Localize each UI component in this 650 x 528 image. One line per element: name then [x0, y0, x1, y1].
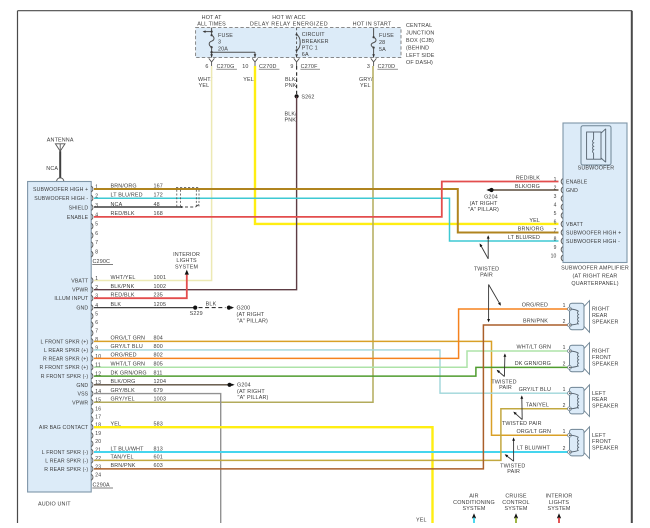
svg-text:3: 3	[554, 194, 557, 200]
audio unit C290A pin 19 bracket	[91, 433, 93, 439]
svg-text:ANTENNA: ANTENNA	[47, 138, 74, 144]
svg-text:PTC 1: PTC 1	[302, 45, 318, 51]
audio unit U1	[28, 182, 92, 493]
svg-text:L REAR SPKR (+): L REAR SPKR (+)	[44, 348, 88, 354]
svg-text:SHIELD: SHIELD	[69, 206, 89, 212]
ground G204 (AT RIGHT A PILLAR) at audio unit	[227, 383, 268, 402]
svg-text:L FRONT SPKR (+): L FRONT SPKR (+)	[40, 339, 88, 345]
label HOT AT ALL TIMES	[197, 15, 226, 27]
svg-text:RIGHT: RIGHT	[592, 307, 610, 313]
svg-text:LIGHTS: LIGHTS	[176, 258, 197, 264]
svg-text:INTERIOR: INTERIOR	[173, 252, 200, 258]
audio unit C290A pin 17 bracket	[91, 416, 93, 422]
svg-text:S262: S262	[301, 94, 314, 100]
svg-text:1001: 1001	[154, 275, 167, 281]
audio unit C290A pin 6 bracket	[91, 322, 93, 328]
svg-text:YEL: YEL	[199, 83, 210, 89]
audio unit C290A pin 10 bracket	[91, 356, 93, 362]
wire TAN/YEL 601 L rear spkr -	[94, 409, 568, 461]
svg-text:24: 24	[95, 473, 101, 479]
svg-text:YEL: YEL	[360, 83, 371, 89]
svg-text:BLK/: BLK/	[285, 77, 298, 83]
label CENTRAL JUNCTION BOX (CJB) (BEHIND LEFT SIDE OF DASH)	[406, 23, 435, 66]
svg-text:SPEAKER: SPEAKER	[592, 404, 619, 410]
svg-text:LEFT: LEFT	[592, 391, 606, 397]
wire GRY/YEL from C270D pin 3 to audio pin VPWR 15	[94, 66, 373, 402]
svg-text:SUBWOOFER HIGH +: SUBWOOFER HIGH +	[33, 187, 88, 193]
connector label C290A	[92, 483, 113, 489]
svg-text:SPEAKER: SPEAKER	[592, 319, 619, 325]
callout INTERIOR LIGHTS SYSTEM (bottom)	[546, 493, 573, 523]
svg-text:2: 2	[563, 361, 566, 367]
arrowhead into connector at x=373.6	[372, 54, 375, 57]
wire label GRY/BLK 679	[111, 388, 163, 394]
wire WHT/LT GRN 805 R front spkr +	[94, 351, 568, 367]
svg-text:BRN/PNK: BRN/PNK	[523, 319, 548, 325]
audio unit C290A pin 3 bracket	[91, 295, 93, 301]
wire CJB branch fuse3 to pin 10	[210, 51, 255, 58]
label RIGHT FRONT SPEAKER	[592, 349, 619, 368]
svg-text:LT BLU/RED: LT BLU/RED	[508, 235, 540, 241]
wire label BRN/ORG 167	[111, 183, 163, 189]
svg-text:SPEAKER: SPEAKER	[592, 446, 619, 452]
svg-text:"A" PILLAR): "A" PILLAR)	[238, 395, 269, 401]
splice S262	[295, 94, 315, 100]
wire label WHT/LT GRN + pin 1 (RF)	[516, 345, 565, 351]
amp pin 8 bracket	[561, 238, 563, 244]
audio unit C290A pin 15 bracket	[91, 399, 93, 405]
svg-text:9: 9	[554, 245, 557, 251]
svg-text:5: 5	[95, 312, 98, 318]
wire label YEL 583	[111, 422, 163, 428]
audio unit C290C pin 2 bracket	[91, 195, 93, 201]
svg-text:3: 3	[218, 39, 221, 45]
ground G200 (AT RIGHT A PILLAR)	[227, 306, 268, 325]
wire YEL from C270D pin 10 to subwoofer amp VBATT	[255, 66, 559, 224]
svg-text:TWISTED PAIR: TWISTED PAIR	[502, 421, 542, 427]
svg-text:6A: 6A	[302, 52, 309, 58]
svg-text:NCA: NCA	[46, 166, 58, 172]
speaker right front	[568, 343, 590, 375]
wire BLK/PNK dashed segment C270F to S262	[296, 66, 298, 94]
audio unit C290A pin 20 bracket	[91, 441, 93, 447]
svg-text:R FRONT SPKR (+): R FRONT SPKR (+)	[39, 365, 88, 371]
amp pin 3 bracket	[561, 196, 563, 202]
svg-text:LEFT SIDE: LEFT SIDE	[406, 53, 435, 59]
wire DK GRN/ORG 811 R front spkr -	[94, 367, 568, 376]
wire label RED/BLK 168	[111, 211, 163, 217]
svg-text:1: 1	[563, 387, 566, 393]
svg-text:WHT/YEL: WHT/YEL	[111, 275, 136, 281]
svg-text:28: 28	[379, 40, 385, 46]
svg-text:(BEHIND: (BEHIND	[406, 45, 429, 51]
callout TWISTED PAIR (LF pair)	[500, 437, 525, 475]
amp pin 6 bracket	[561, 221, 563, 227]
svg-text:(AT RIGHT REAR: (AT RIGHT REAR	[573, 273, 618, 279]
svg-text:3: 3	[95, 203, 98, 209]
splice S229	[190, 306, 203, 318]
wire label BRN/PNK + pin 2 (RR)	[523, 319, 566, 325]
svg-text:INTERIOR: INTERIOR	[546, 493, 573, 499]
svg-text:PAIR: PAIR	[507, 469, 520, 475]
svg-text:TAN/YEL: TAN/YEL	[526, 403, 549, 409]
wire label BRN/PNK 603	[111, 463, 163, 469]
svg-text:SYSTEM: SYSTEM	[547, 506, 570, 512]
svg-text:1002: 1002	[154, 284, 167, 290]
svg-text:VBATT: VBATT	[71, 279, 89, 285]
audio unit C290C pin 6 bracket	[91, 233, 93, 239]
svg-text:SUBWOOFER HIGH +: SUBWOOFER HIGH +	[566, 230, 621, 236]
svg-text:LEFT: LEFT	[592, 433, 606, 439]
wire WHT/YEL vertical from C270G to audio pin 1	[94, 66, 212, 281]
svg-text:8: 8	[95, 250, 98, 256]
shield dashed loop around twisted pair	[176, 187, 200, 206]
svg-text:BREAKER: BREAKER	[302, 39, 329, 45]
label SUBWOOFER AMPLIFIER (AT RIGHT REAR QUARTERPANEL)	[561, 266, 629, 287]
svg-text:6: 6	[554, 219, 557, 225]
audio unit C290A pin 24 bracket	[91, 474, 93, 480]
svg-text:BLK: BLK	[206, 301, 217, 307]
svg-text:DK GRN/ORG: DK GRN/ORG	[515, 361, 551, 367]
svg-text:G204: G204	[484, 195, 498, 201]
svg-text:7: 7	[554, 228, 557, 234]
svg-text:4: 4	[554, 202, 557, 208]
arrowhead into connector at x=255	[254, 54, 257, 57]
fuse F3 20A	[203, 28, 234, 58]
wire label GRY/LT BLU 800	[111, 344, 163, 350]
audio unit C290A pin 8 bracket	[91, 339, 93, 345]
svg-text:ILLUM INPUT: ILLUM INPUT	[54, 296, 89, 302]
svg-text:1003: 1003	[154, 397, 167, 403]
svg-text:PNK: PNK	[285, 83, 297, 89]
wire GRY/BLK 679 VSS down to page bottom	[94, 394, 221, 523]
audio unit C290A pin 18 bracket	[91, 424, 93, 430]
wire label NCA 48	[111, 202, 160, 208]
wire label ORG/LT GRN + pin 1 (LF)	[516, 429, 565, 435]
svg-text:G200: G200	[237, 306, 251, 312]
audio unit C290A pin 23 bracket	[91, 466, 93, 472]
svg-text:16: 16	[95, 406, 101, 412]
svg-text:20A: 20A	[218, 46, 228, 52]
audio unit C290C pin 1 bracket	[91, 186, 93, 192]
audio unit C290A pin 2 bracket	[91, 287, 93, 293]
arrowhead into connector at x=296.6	[295, 54, 298, 57]
wire label TAN/YEL + pin 2 (LR)	[526, 403, 566, 409]
amp pin 5 bracket	[561, 213, 563, 219]
connector pin symbol at x=255	[252, 58, 258, 66]
svg-text:AIR BAG CONTACT: AIR BAG CONTACT	[39, 425, 89, 431]
svg-text:GND: GND	[76, 383, 88, 389]
audio unit C290A pin 5 bracket	[91, 313, 93, 319]
wire label BLK/PNK upper	[285, 77, 298, 89]
antenna	[47, 138, 74, 182]
page border frame	[18, 10, 633, 12]
wire RED/BLK 168 enable to amp pin 1	[94, 182, 559, 217]
svg-text:SPEAKER: SPEAKER	[592, 361, 619, 367]
audio unit C290C pin 5 bracket	[91, 223, 93, 229]
wire label GRY/YEL	[359, 77, 373, 89]
label HOT W/ ACC DELAY RELAY ENERGIZED	[250, 15, 328, 27]
svg-text:HOT W/ ACC: HOT W/ ACC	[272, 15, 305, 21]
svg-text:FRONT: FRONT	[592, 355, 612, 361]
svg-text:GRY/YEL: GRY/YEL	[111, 397, 135, 403]
amp pin 1 bracket	[561, 179, 563, 185]
svg-text:BLK/ORG: BLK/ORG	[515, 184, 540, 190]
svg-text:8: 8	[554, 236, 557, 242]
wire label BLK/ORG 1204	[111, 379, 167, 385]
speaker left rear	[568, 385, 590, 417]
svg-text:ALL TIMES: ALL TIMES	[197, 22, 226, 28]
svg-text:19: 19	[95, 431, 101, 437]
wire BLK/ORG 1204 to ground G204	[94, 384, 228, 386]
subwoofer amplifier U2	[563, 123, 627, 263]
connector label 6 C270G	[205, 64, 237, 70]
svg-text:S229: S229	[190, 311, 203, 317]
svg-text:HOT IN START: HOT IN START	[353, 22, 392, 28]
wire BLK dashed to G200	[199, 307, 226, 309]
svg-text:R REAR SPKR (-): R REAR SPKR (-)	[44, 467, 88, 473]
wire label LT BLU/WHT 813	[111, 446, 163, 452]
svg-text:20: 20	[95, 439, 101, 445]
svg-text:SUBWOOFER HIGH -: SUBWOOFER HIGH -	[34, 196, 88, 202]
svg-text:1: 1	[563, 429, 566, 435]
wire BRN/PNK 603 R rear spkr -	[94, 325, 568, 469]
callout INTERIOR LIGHTS SYSTEM (left)	[173, 252, 200, 275]
svg-text:DELAY RELAY ENERGIZED: DELAY RELAY ENERGIZED	[250, 22, 328, 28]
wire ORG/RED 802 R rear spkr +	[94, 309, 568, 358]
svg-text:SUBWOOFER: SUBWOOFER	[578, 166, 615, 172]
connector label C290C	[92, 259, 113, 265]
svg-text:BLK/: BLK/	[285, 112, 298, 118]
svg-text:PAIR: PAIR	[499, 385, 512, 391]
wire label ORG/RED 802	[111, 353, 163, 359]
wire label LT BLU/RED 172	[111, 193, 163, 199]
svg-text:FUSE: FUSE	[218, 33, 233, 39]
svg-text:G204: G204	[237, 383, 251, 389]
wire label BLK/PNK 1002	[111, 284, 167, 290]
connector label 3 C270D	[367, 64, 398, 70]
audio unit C290C pin 7 bracket	[91, 242, 93, 248]
svg-text:BRN/ORG: BRN/ORG	[518, 226, 544, 232]
svg-text:2: 2	[563, 319, 566, 325]
wire BRN/ORG 167 subwoofer high + to amp pin 7	[94, 189, 559, 233]
label LEFT FRONT SPEAKER	[592, 433, 619, 452]
svg-text:R REAR SPKR (+): R REAR SPKR (+)	[43, 356, 88, 362]
speaker left front	[568, 427, 590, 459]
svg-text:2: 2	[563, 446, 566, 452]
amp pin 10 bracket	[561, 255, 563, 261]
wire label BLK 1205	[111, 302, 167, 308]
wire RED/BLK 235 illum input to interior lights system	[94, 275, 187, 299]
svg-text:SYSTEM: SYSTEM	[462, 506, 485, 512]
amp pin 4 bracket	[561, 204, 563, 210]
wire label RED/BLK 235	[111, 293, 163, 299]
svg-text:AIR: AIR	[469, 493, 478, 499]
circuit breaker PTC 1 6A	[296, 28, 329, 58]
wire label LT BLU/WHT + pin 2 (LF)	[517, 446, 566, 452]
svg-text:YEL: YEL	[529, 218, 540, 224]
svg-text:7: 7	[95, 329, 98, 335]
wire BLK/PNK from S262 to audio pin VPWR	[94, 96, 297, 289]
audio unit C290A pin 22 bracket	[91, 458, 93, 464]
callout CRUISE CONTROL SYSTEM	[502, 493, 529, 523]
connector pin symbol at x=211.6	[209, 58, 215, 66]
audio unit C290A pin 16 bracket	[91, 408, 93, 414]
svg-text:CONTROL: CONTROL	[502, 500, 529, 506]
amp pin 9 bracket	[561, 247, 563, 253]
svg-text:SUBWOOFER AMPLIFIER: SUBWOOFER AMPLIFIER	[561, 266, 629, 272]
svg-text:LIGHTS: LIGHTS	[549, 500, 570, 506]
svg-text:(AT RIGHT: (AT RIGHT	[470, 201, 498, 207]
connector label 10 C270D	[242, 64, 279, 70]
wire LT BLU/WHT 813 L front spkr -	[94, 451, 568, 453]
svg-text:"A" PILLAR): "A" PILLAR)	[237, 319, 268, 325]
svg-text:REAR: REAR	[592, 313, 608, 319]
audio unit C290A pin 13 bracket	[91, 382, 93, 388]
svg-text:ENABLE: ENABLE	[566, 179, 588, 185]
svg-text:15: 15	[95, 398, 101, 404]
svg-text:(AT RIGHT: (AT RIGHT	[237, 312, 265, 318]
svg-text:LT BLU/WHT: LT BLU/WHT	[517, 446, 551, 452]
audio unit C290A pin 1 bracket	[91, 278, 93, 284]
wire label DK GRN/ORG 811	[111, 370, 163, 376]
svg-text:10: 10	[551, 253, 557, 259]
wire label GRY/LT BLU + pin 1 (LR)	[519, 387, 566, 393]
wire label BLK/PNK lower	[285, 112, 298, 124]
svg-text:GRY/: GRY/	[359, 77, 373, 83]
svg-text:RIGHT: RIGHT	[592, 349, 610, 355]
wire label WHT/LT GRN 805	[111, 362, 163, 368]
wire ORG/LT GRN 804 L front spkr +	[94, 341, 568, 435]
wire label TAN/YEL 601	[111, 455, 163, 461]
audio unit C290A pin 11 bracket	[91, 364, 93, 370]
svg-text:5: 5	[95, 222, 98, 228]
svg-text:AUDIO UNIT: AUDIO UNIT	[38, 501, 71, 507]
ground G204 at amp GND pin 2	[468, 188, 558, 213]
wire GRY/LT BLU 800 L rear spkr +	[94, 350, 568, 393]
label LEFT REAR SPEAKER	[592, 391, 619, 410]
wire label DK GRN/ORG + pin 2 (RF)	[515, 361, 566, 367]
svg-text:YEL: YEL	[243, 77, 254, 83]
svg-text:CENTRAL: CENTRAL	[406, 23, 432, 29]
audio unit C290A pin 9 bracket	[91, 347, 93, 353]
svg-text:CIRCUIT: CIRCUIT	[302, 32, 325, 38]
arrowhead into connector at x=211.6	[210, 54, 213, 57]
svg-text:BOX (CJB): BOX (CJB)	[406, 38, 434, 44]
svg-text:1: 1	[563, 345, 566, 351]
svg-text:3: 3	[367, 64, 370, 70]
svg-text:VSS: VSS	[77, 392, 88, 398]
svg-text:PNK: PNK	[285, 118, 297, 124]
connector pin symbol at x=373.6	[371, 58, 377, 66]
svg-text:VBATT: VBATT	[566, 222, 584, 228]
svg-text:FRONT: FRONT	[592, 439, 612, 445]
svg-text:1: 1	[554, 177, 557, 183]
svg-text:GND: GND	[566, 188, 578, 194]
svg-text:WHT/: WHT/	[198, 77, 213, 83]
svg-text:5: 5	[554, 211, 557, 217]
connector label 9 C270F	[290, 64, 320, 70]
label RIGHT REAR SPEAKER	[592, 307, 619, 326]
svg-text:6: 6	[95, 231, 98, 237]
svg-text:ORG/LT GRN: ORG/LT GRN	[516, 429, 551, 435]
speaker right rear	[568, 301, 590, 333]
svg-text:WHT/LT GRN: WHT/LT GRN	[516, 345, 551, 351]
svg-text:ORG/RED: ORG/RED	[522, 303, 548, 309]
svg-text:R FRONT SPKR (-): R FRONT SPKR (-)	[41, 374, 89, 380]
subwoofer speaker icon	[581, 126, 611, 165]
svg-text:VPWR: VPWR	[72, 400, 88, 406]
svg-text:HOT AT: HOT AT	[202, 15, 222, 21]
callout TWISTED PAIR (RF pair)	[491, 353, 516, 391]
svg-text:FUSE: FUSE	[379, 33, 394, 39]
svg-text:GRY/LT BLU: GRY/LT BLU	[519, 387, 551, 393]
callout TWISTED PAIR (amp + RR pairs)	[474, 235, 502, 322]
wire label GRY/YEL 1003	[111, 397, 167, 403]
svg-text:VPWR: VPWR	[72, 288, 88, 294]
audio unit C290C pin 4 bracket	[91, 214, 93, 220]
central junction box CJB	[196, 28, 401, 58]
svg-text:SUBWOOFER HIGH -: SUBWOOFER HIGH -	[566, 239, 620, 245]
svg-text:7: 7	[95, 240, 98, 246]
svg-text:YEL: YEL	[416, 518, 427, 524]
svg-text:REAR: REAR	[592, 397, 608, 403]
svg-text:JUNCTION: JUNCTION	[406, 31, 434, 37]
svg-text:"A" PILLAR): "A" PILLAR)	[468, 207, 499, 213]
wire label ORG/RED + pin 1 (RR)	[522, 303, 566, 309]
audio unit C290A pin 14 bracket	[91, 391, 93, 397]
wire label ORG/LT GRN 804	[111, 336, 163, 342]
audio unit C290C pin 8 bracket	[91, 251, 93, 257]
audio unit C290A pin 4 bracket	[91, 305, 93, 311]
wire BLK 1205 to splice S229	[94, 307, 195, 309]
svg-text:BLK/PNK: BLK/PNK	[111, 284, 135, 290]
svg-text:QUARTERPANEL): QUARTERPANEL)	[571, 281, 618, 287]
svg-text:L FRONT SPKR (-): L FRONT SPKR (-)	[42, 450, 89, 456]
svg-text:2: 2	[95, 285, 98, 291]
svg-text:5A: 5A	[379, 47, 386, 53]
svg-text:1: 1	[95, 276, 98, 282]
svg-text:CONDITIONING: CONDITIONING	[453, 500, 495, 506]
svg-text:9: 9	[290, 64, 293, 70]
wire label WHT/YEL 1001	[111, 275, 167, 281]
svg-text:(AT RIGHT: (AT RIGHT	[237, 389, 265, 395]
svg-text:SYSTEM: SYSTEM	[175, 264, 198, 270]
svg-text:ENABLE: ENABLE	[67, 215, 89, 221]
svg-text:17: 17	[95, 415, 101, 421]
wire label WHT/YEL	[198, 77, 213, 89]
connector pin symbol at x=296.6	[294, 58, 300, 66]
audio unit C290C pin 3 bracket	[91, 205, 93, 211]
svg-text:2: 2	[563, 403, 566, 409]
svg-text:OF DASH): OF DASH)	[406, 60, 433, 66]
audio unit C290A pin 12 bracket	[91, 373, 93, 379]
svg-text:GND: GND	[76, 306, 88, 312]
audio unit C290A pin 7 bracket	[91, 330, 93, 336]
svg-text:TWISTED: TWISTED	[474, 266, 499, 272]
audio unit C290A pin 21 bracket	[91, 449, 93, 455]
wire NCA 48 shield drain	[94, 206, 183, 208]
callout TWISTED PAIR (LR pair)	[502, 395, 542, 427]
wire LT BLU/RED 172 subwoofer high - to amp pin 8	[94, 198, 559, 241]
callout AIR CONDITIONING SYSTEM	[453, 493, 495, 523]
amp pin 2 bracket	[561, 187, 563, 193]
fuse F28 5A	[371, 28, 394, 58]
svg-text:L REAR SPKR (-): L REAR SPKR (-)	[45, 458, 88, 464]
svg-text:1: 1	[563, 303, 566, 309]
svg-text:RED/BLK: RED/BLK	[516, 175, 540, 181]
svg-text:6: 6	[95, 320, 98, 326]
